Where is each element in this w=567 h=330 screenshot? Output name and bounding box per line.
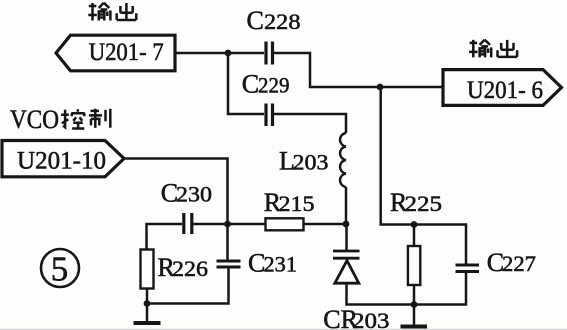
svg-text:U201- 6: U201- 6 bbox=[467, 77, 543, 104]
svg-text:227: 227 bbox=[502, 251, 536, 276]
svg-text:U201-10: U201-10 bbox=[17, 148, 106, 175]
svg-text:231: 231 bbox=[264, 252, 298, 277]
svg-text:228: 228 bbox=[264, 9, 301, 34]
svg-text:225: 225 bbox=[405, 191, 443, 216]
svg-text:230: 230 bbox=[176, 182, 212, 207]
svg-text:203: 203 bbox=[352, 308, 390, 330]
svg-text:C: C bbox=[247, 6, 264, 35]
svg-text:203: 203 bbox=[293, 150, 329, 175]
svg-text:C: C bbox=[242, 70, 259, 99]
svg-text:226: 226 bbox=[172, 256, 208, 281]
svg-text:U201- 7: U201- 7 bbox=[89, 39, 164, 66]
svg-text:5: 5 bbox=[51, 250, 69, 289]
svg-text:215: 215 bbox=[279, 191, 315, 216]
svg-text:VCO: VCO bbox=[10, 105, 59, 134]
svg-text:229: 229 bbox=[258, 73, 290, 98]
